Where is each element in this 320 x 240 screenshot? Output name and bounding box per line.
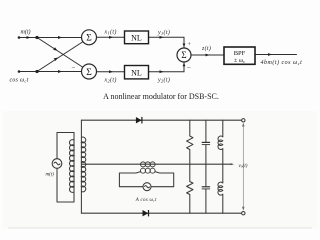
resistor R1 upper bbox=[187, 136, 193, 149]
svg-text:NL: NL bbox=[131, 69, 142, 78]
transformer T1 primary winding bbox=[70, 140, 74, 193]
wire: NL2 output y2 to corner bbox=[149, 62, 185, 72]
wire: bottom rail bbox=[81, 212, 243, 214]
choke L2 secondary loops (to carrier loop) bbox=[141, 168, 156, 173]
svg-text:Σ: Σ bbox=[181, 50, 186, 60]
arrow on top line mid bbox=[58, 36, 62, 39]
svg-text:A cos ωct: A cos ωct bbox=[135, 198, 157, 203]
svg-text:m(t): m(t) bbox=[21, 29, 31, 36]
svg-text:A nonlinear modulator for DSB-: A nonlinear modulator for DSB-SC. bbox=[103, 92, 219, 101]
svg-text:4bm(t) cos ωct: 4bm(t) cos ωct bbox=[261, 59, 303, 66]
summer U1 bbox=[82, 30, 97, 45]
block BPF bbox=[224, 47, 255, 64]
wire: top input m(t) line bbox=[19, 37, 82, 39]
svg-text:z(t): z(t) bbox=[201, 45, 211, 52]
svg-text:Σ: Σ bbox=[86, 34, 92, 44]
arrow U1 to NL1 bbox=[109, 36, 113, 39]
svg-text:vo(t): vo(t) bbox=[239, 162, 248, 169]
wire: diagonal from top junction to bottom summer bbox=[37, 38, 84, 69]
terminal top bbox=[242, 119, 245, 122]
wire: carrier loop right bbox=[151, 172, 174, 187]
wire: diagonal from bottom junction to top summer bbox=[37, 41, 84, 72]
svg-text:BPF: BPF bbox=[234, 50, 246, 57]
capacitor C1 upper bbox=[202, 142, 210, 144]
node: junction top bbox=[35, 36, 38, 39]
wire: center tap line bbox=[81, 163, 232, 165]
svg-text:cos ωct: cos ωct bbox=[10, 78, 29, 84]
summer U3 bbox=[177, 48, 191, 62]
block NL1 bbox=[125, 31, 149, 44]
svg-text:x1(t): x1(t) bbox=[104, 29, 117, 36]
arrow U3 to BPF bbox=[206, 54, 210, 57]
svg-text:m(t): m(t) bbox=[46, 173, 55, 178]
summer U2 bbox=[82, 64, 97, 79]
arrow NL1 out bbox=[160, 36, 164, 39]
svg-text:± ωc: ± ωc bbox=[234, 57, 245, 64]
wire: primary lead bbox=[73, 133, 75, 203]
diode D2 bottom rail bbox=[143, 210, 149, 216]
annotation: output voltage arrow bbox=[242, 123, 245, 211]
wire: secondary lead to rails bbox=[80, 120, 82, 213]
scan backdrop of lower figure bbox=[3, 111, 317, 228]
arrow on down diagonal bbox=[53, 47, 57, 51]
wire: bottom input cos line bbox=[19, 71, 82, 73]
arrow BPF out bbox=[268, 53, 272, 56]
node: input dot top bbox=[18, 36, 21, 39]
wire: summer U1 to NL1 bbox=[97, 36, 125, 38]
wire: summer U3 to BPF bbox=[191, 54, 224, 56]
wire: carrier loop left bbox=[119, 172, 143, 187]
wire: V1 loop bottom side bbox=[57, 168, 74, 202]
arrow into U3 top (down) bbox=[183, 44, 186, 48]
arrow at end of tap line bbox=[231, 163, 235, 165]
wire: R branch bbox=[189, 120, 191, 136]
svg-text:y1(t): y1(t) bbox=[157, 29, 170, 36]
resistor R2 lower bbox=[187, 182, 193, 195]
source V1 m(t) bbox=[52, 159, 62, 169]
wire: summer U2 to NL2 bbox=[97, 71, 125, 73]
arrow on up diagonal bbox=[54, 58, 58, 62]
svg-text:x2(t): x2(t) bbox=[104, 77, 117, 84]
terminal bottom bbox=[242, 212, 245, 215]
arrow on top input bbox=[27, 36, 31, 39]
svg-text:NL: NL bbox=[131, 34, 142, 43]
wire: L branch bbox=[222, 120, 224, 137]
diode D1 top rail bbox=[136, 117, 142, 123]
choke L2 primary loops (on tap line) bbox=[141, 162, 156, 167]
node: input dot bottom bbox=[18, 70, 21, 73]
source V2 carrier bbox=[143, 183, 151, 191]
arrow U2 to NL2 bbox=[109, 70, 113, 73]
svg-text:−: − bbox=[72, 64, 76, 72]
wire: C branch bbox=[205, 120, 207, 142]
wire: top rail bbox=[81, 119, 243, 121]
arrow into U3 bottom (up) bbox=[183, 63, 186, 67]
block NL2 bbox=[125, 66, 149, 79]
wire: V1 loop top side bbox=[57, 133, 74, 159]
svg-text:y2(t): y2(t) bbox=[157, 77, 170, 84]
arrow NL2 out bbox=[160, 70, 164, 73]
wire: NL1 output y1 to corner bbox=[149, 37, 185, 48]
inductor L3 upper bbox=[218, 136, 223, 149]
svg-text:Σ: Σ bbox=[86, 68, 92, 78]
node: junction bottom bbox=[35, 70, 38, 73]
capacitor C2 lower bbox=[202, 187, 210, 189]
arrow on bottom line mid bbox=[58, 70, 62, 73]
wire: BPF output bbox=[255, 54, 297, 56]
inductor L4 lower bbox=[218, 182, 223, 195]
svg-text:−: − bbox=[187, 64, 191, 72]
transformer T1 secondary winding bbox=[81, 137, 85, 192]
